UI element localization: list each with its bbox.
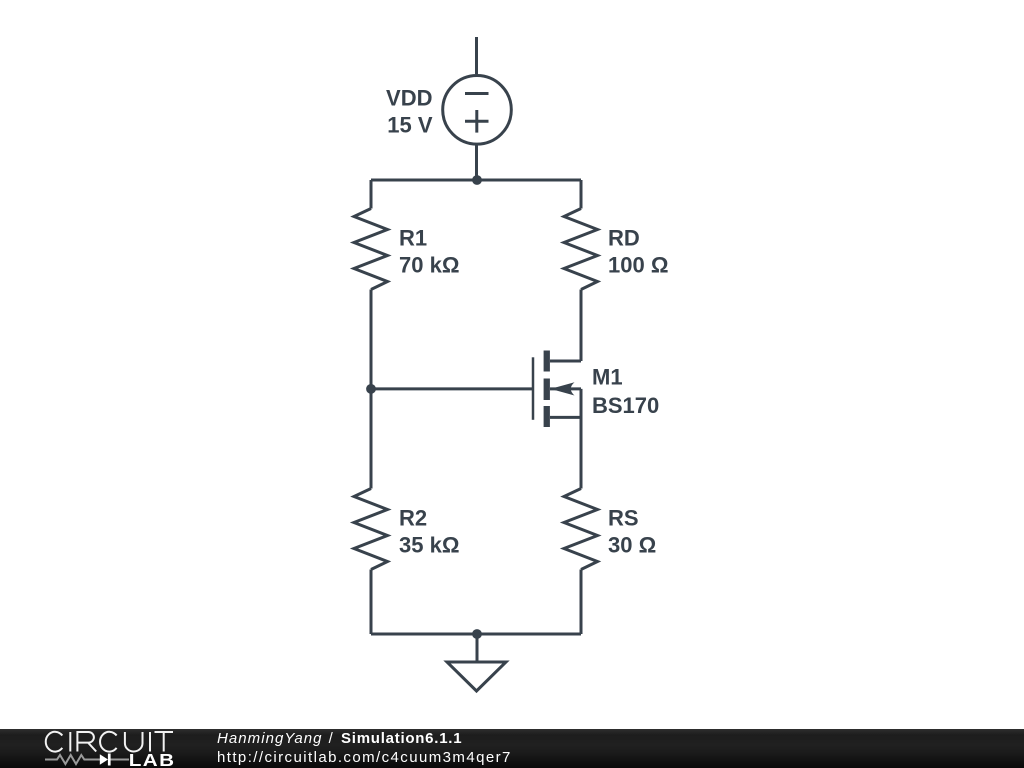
- svg-text:LAB: LAB: [129, 750, 176, 768]
- svg-text:15 V: 15 V: [387, 112, 433, 137]
- svg-text:70 kΩ: 70 kΩ: [399, 252, 459, 277]
- svg-text:RD: RD: [608, 225, 640, 250]
- svg-text:M1: M1: [592, 365, 623, 390]
- svg-text:BS170: BS170: [592, 393, 659, 418]
- svg-text:R1: R1: [399, 225, 427, 250]
- svg-text:RS: RS: [608, 505, 639, 530]
- svg-text:35 kΩ: 35 kΩ: [399, 532, 459, 557]
- svg-text:30 Ω: 30 Ω: [608, 532, 656, 557]
- svg-text:100 Ω: 100 Ω: [608, 252, 668, 277]
- svg-text:R2: R2: [399, 505, 427, 530]
- svg-text:VDD: VDD: [386, 86, 432, 111]
